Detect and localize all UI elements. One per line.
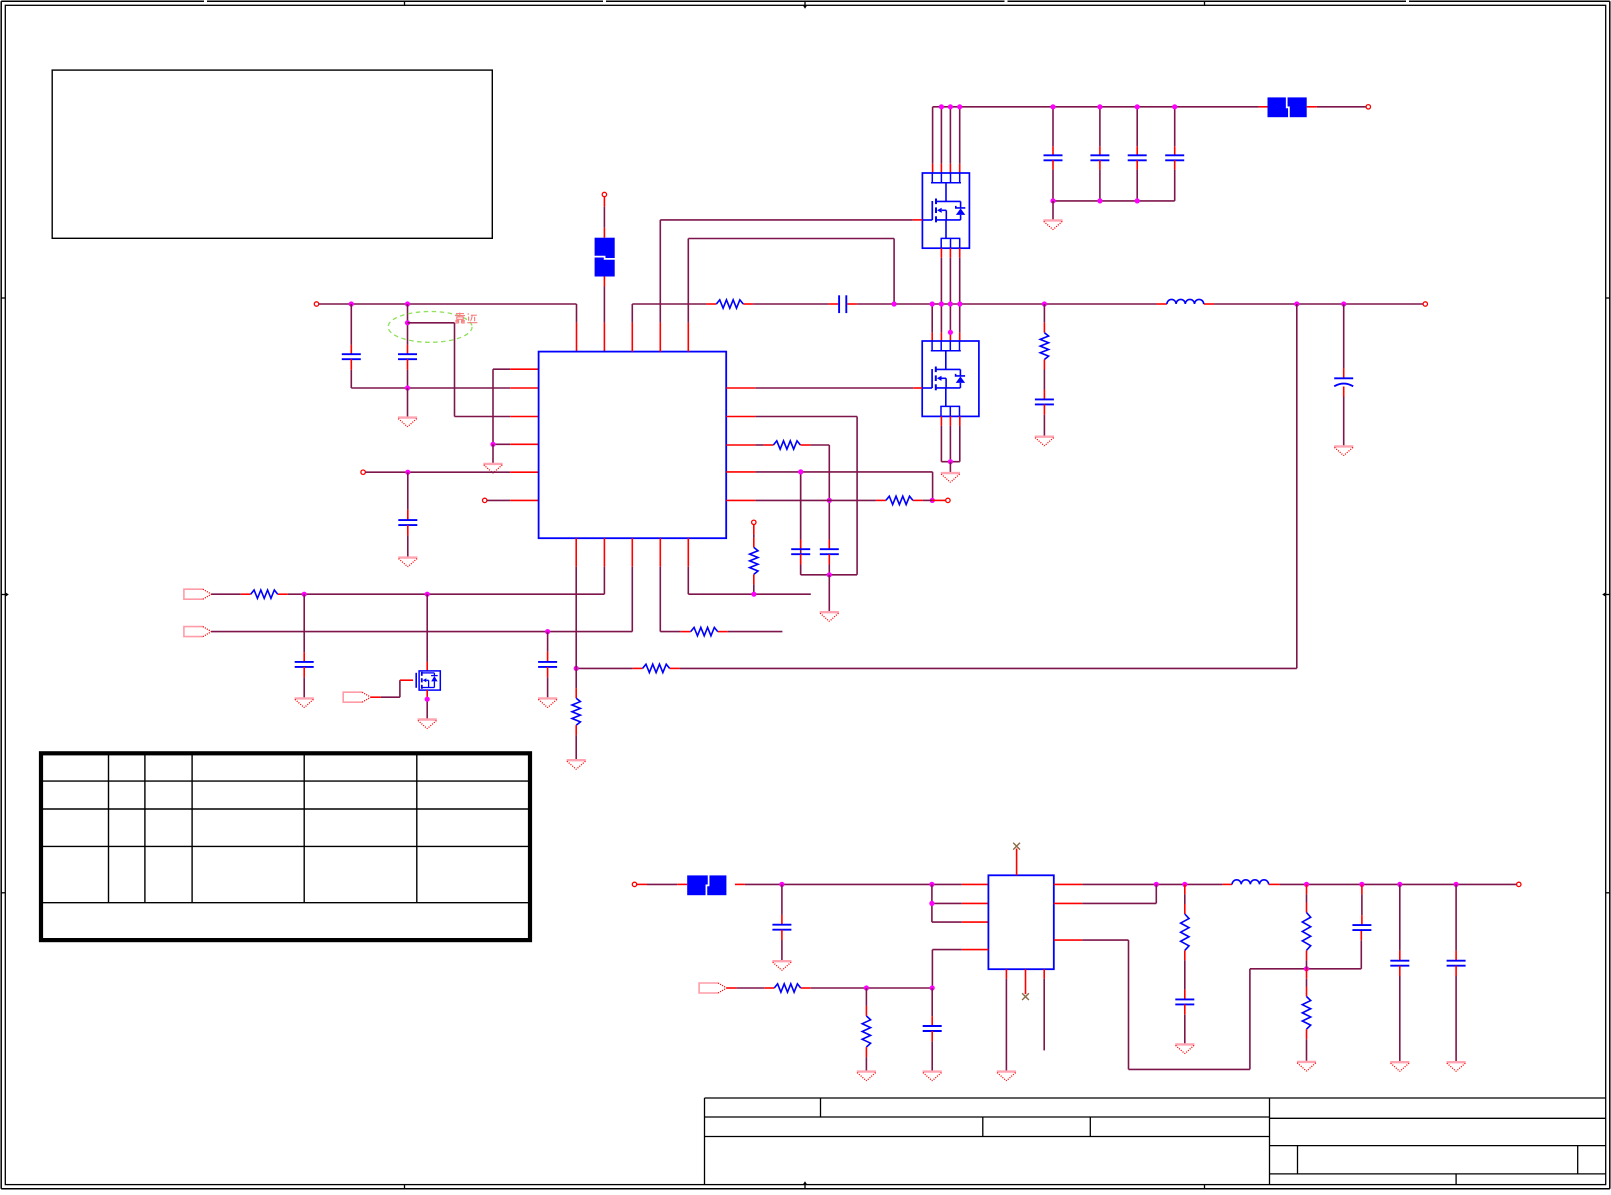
wire Q2 source to ground — [941, 416, 959, 461]
ground C17 — [1175, 1044, 1194, 1053]
pin input bottom — [632, 882, 636, 886]
junction dot enable row — [405, 470, 410, 475]
resistor R12 — [1181, 884, 1189, 989]
wire IC2 noconnect pin — [1025, 969, 1027, 994]
ground IC left — [483, 444, 502, 473]
junction dots W1 — [302, 592, 430, 597]
wire IC pin rows left — [493, 369, 539, 444]
port input P1 — [184, 589, 212, 599]
ground C16 — [923, 1072, 942, 1081]
junction dots bottom bus — [779, 882, 934, 887]
ground C10 — [1334, 446, 1353, 455]
capacitor C2 input bank — [1090, 107, 1109, 201]
ground loop mid — [820, 575, 839, 622]
transistor Q1 package — [922, 173, 969, 248]
wire Q3 gate — [371, 680, 413, 697]
wire IC2 top noconnect — [1016, 849, 1018, 876]
wire Q1 source to switch node — [932, 248, 960, 341]
pin input left — [314, 302, 318, 306]
capacitor C6 — [398, 304, 417, 388]
junction dot W3 — [574, 666, 579, 671]
junction dots top bus at Q1 — [939, 104, 963, 109]
junction dot C6 tap — [405, 320, 410, 325]
wire IC pin660 to Q1 gate — [660, 220, 922, 352]
junction dot left gnd pin — [490, 442, 495, 447]
junction dots loop — [798, 469, 935, 577]
wire IC pin632 to switch bus — [631, 304, 633, 352]
wire IC pin688 boost loop — [688, 239, 894, 352]
wire fuse to IC pin — [603, 277, 605, 352]
pin comp top — [752, 520, 756, 524]
wire VIN top bus — [933, 106, 1366, 108]
ground C14 — [538, 698, 557, 707]
junction dot Q3 source — [425, 697, 430, 702]
resistor R9 — [691, 627, 718, 635]
fuse F1 — [594, 238, 616, 277]
junction dots cap ground bus — [1050, 198, 1139, 203]
wire IC2 sense row — [1054, 884, 1157, 903]
ground Q2 source — [941, 462, 960, 483]
junction dots output bus — [1154, 882, 1459, 887]
wire IC pin660 bottom with R9 — [660, 538, 782, 631]
ground C20 — [1447, 1062, 1466, 1071]
wire enable row — [365, 471, 538, 473]
wire W1 with R8 — [211, 538, 604, 594]
revision table — [41, 753, 530, 940]
ground C15 — [772, 961, 791, 970]
junction dots top bus at caps — [1050, 104, 1177, 109]
ground C7 — [398, 558, 417, 567]
transistor Q2 internals — [922, 341, 965, 416]
capacitor C14 — [538, 632, 557, 698]
capacitor C10 output polarized — [1334, 304, 1353, 445]
wire IC2 row enable — [932, 950, 988, 988]
junction dots bus A — [349, 301, 410, 306]
ground divider — [567, 725, 586, 769]
wire W2 — [211, 538, 632, 631]
junction dot Q2 source — [948, 459, 953, 464]
pin output bottom — [1517, 882, 1521, 886]
junction dot IC2 feed — [929, 901, 934, 906]
transistor Q3 small MOSFET — [416, 671, 440, 690]
wire enable row with R10 — [727, 987, 932, 989]
pin enable left — [361, 470, 365, 474]
ground C19 — [1390, 1062, 1409, 1071]
capacitor C4 input bank — [1165, 107, 1184, 201]
IC U1 controller — [539, 352, 727, 539]
ground C13 — [295, 698, 314, 707]
junction dot Q2 gate column — [948, 330, 953, 335]
resistor R14 divider bottom — [1302, 969, 1310, 1061]
pin current sense — [946, 498, 950, 502]
ground input cap bank — [1043, 201, 1062, 230]
wire IC row 472 — [726, 472, 932, 501]
placement note text — [455, 313, 477, 324]
junction dot feedback — [1304, 966, 1309, 971]
noconnect X top — [1013, 843, 1020, 850]
junction dots enable row — [864, 985, 935, 990]
capacitor C11 — [820, 540, 839, 575]
wire IC row Q2 gate — [726, 387, 922, 389]
capacitor C9 snubber — [1035, 390, 1054, 436]
capacitor C12 — [791, 472, 810, 575]
wire Q3 drain — [426, 594, 428, 671]
wire feedback bottom row W3 — [576, 667, 1297, 669]
capacitor C5 — [342, 304, 361, 388]
resistor R10 — [774, 984, 800, 992]
pin switch output right — [1423, 302, 1427, 306]
capacitor C13 — [295, 594, 314, 697]
fuse F3 — [687, 875, 726, 896]
wire IC2 feedback path — [1054, 930, 1362, 1069]
wire bootstrap column — [603, 197, 605, 238]
resistor R7 divider low — [572, 698, 580, 725]
pin VIN connector — [1366, 105, 1370, 109]
pin bootstrap top — [602, 192, 606, 196]
fuse F2 — [1259, 106, 1268, 108]
wire mode row — [487, 499, 539, 501]
capacitor C15 — [772, 884, 791, 960]
inductor L1 — [1167, 299, 1204, 304]
resistor R8 — [251, 590, 278, 598]
resistor R13 divider top — [1302, 884, 1310, 968]
ground caps C5 C6 — [398, 388, 417, 427]
port input P3 — [184, 627, 212, 637]
resistor R1 snubber — [716, 300, 743, 308]
wire IC2 dangling pin — [1043, 969, 1045, 1050]
resistor R4 row 500 — [726, 496, 945, 504]
capacitor C3 input bank — [1128, 107, 1147, 201]
junction dot W2 — [545, 629, 550, 634]
placement note ellipse — [388, 312, 472, 343]
resistor R2 snubber leg — [1040, 304, 1048, 390]
wire Q3 source to ground — [426, 690, 428, 718]
notes box (empty) — [52, 70, 492, 238]
ground IC2 — [997, 1072, 1016, 1081]
ground Q3 — [418, 720, 437, 729]
ground snubber — [1035, 437, 1054, 446]
capacitor C17 — [1175, 990, 1194, 1044]
wire output bus bottom — [1054, 883, 1517, 885]
resistor R6 feedback — [643, 664, 670, 672]
junction dots switch bus — [892, 301, 1347, 306]
wire IC2 left feed rows — [932, 884, 989, 922]
pin mode left — [483, 498, 487, 502]
wire feedback right column — [1296, 304, 1298, 668]
capacitor C8 series — [839, 295, 846, 313]
inductor L2 — [1232, 880, 1269, 885]
wire input bus A — [319, 304, 577, 352]
wire switch node bus — [632, 303, 1423, 305]
wire IC2 ground pin — [1005, 969, 1007, 1070]
resistor R11 pulldown — [862, 988, 870, 1071]
transistor Q2 package — [922, 341, 979, 416]
junction dot comp row — [751, 592, 756, 597]
capacitor C19 output — [1390, 884, 1409, 1061]
transistor Q1 internals — [922, 173, 965, 248]
capacitor C1 input bank — [1044, 107, 1063, 201]
port enable bottom — [699, 983, 727, 993]
wire IC row 416 loop — [726, 417, 857, 575]
junction dot cap ground row — [405, 385, 410, 390]
wire bottom input bus — [637, 883, 989, 885]
resistor R3 row 445 — [726, 441, 829, 540]
wire C6 tap to VCC pin — [408, 323, 539, 417]
wire Q1 drain columns — [933, 107, 960, 173]
capacitor C16 — [923, 988, 942, 1071]
resistor R5 comp — [750, 525, 758, 595]
IC U2 regulator — [988, 875, 1053, 969]
title block — [705, 1098, 1606, 1185]
capacitor C7 — [398, 472, 417, 556]
wire IC pin688 bottom row — [688, 538, 811, 594]
wire cap bank ground bus — [1053, 200, 1175, 202]
wire IC pin576 column — [575, 538, 577, 698]
ground divider bottom — [1297, 1062, 1316, 1071]
noconnect X bottom — [1022, 993, 1029, 1000]
port gate P2 — [343, 692, 371, 702]
capacitor C18 feedforward — [1352, 884, 1371, 930]
capacitor C20 output — [1447, 884, 1466, 1061]
ground R11 — [857, 1072, 876, 1081]
wire cap ground row — [351, 387, 493, 389]
